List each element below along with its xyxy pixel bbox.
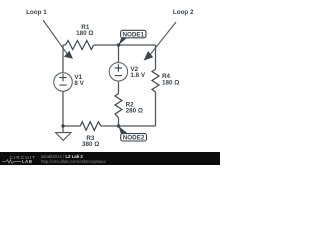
svg-text:Loop 2: Loop 2 (173, 9, 194, 16)
svg-text:NODE2: NODE2 (123, 135, 145, 142)
svg-text:Loop 1: Loop 1 (26, 9, 47, 16)
svg-text:180 Ω: 180 Ω (162, 79, 179, 86)
svg-text:280 Ω: 280 Ω (126, 108, 143, 115)
svg-text:1.8 V: 1.8 V (130, 72, 146, 79)
svg-text:NODE1: NODE1 (122, 31, 144, 38)
svg-text:8 V: 8 V (74, 80, 84, 87)
svg-text:380 Ω: 380 Ω (82, 141, 99, 148)
svg-text:180 Ω: 180 Ω (76, 30, 93, 37)
